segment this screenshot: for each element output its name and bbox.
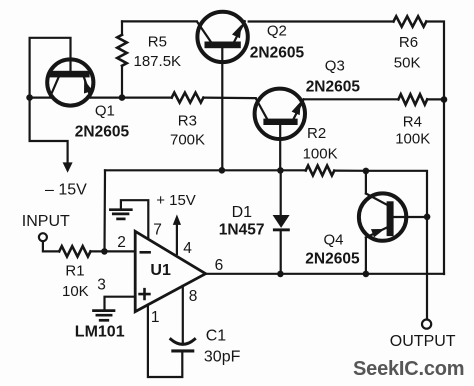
svg-text:Q3: Q3: [325, 58, 345, 75]
wire feedback rail to Q4 base and OUTPUT: [366, 171, 427, 319]
svg-text:R5: R5: [148, 33, 167, 50]
svg-text:D1: D1: [232, 204, 253, 221]
svg-text:1N457: 1N457: [219, 222, 265, 239]
ground at pin 7: [110, 210, 131, 219]
wire pin 8 to C1: [182, 286, 184, 344]
wire pin 1 to C1 bottom: [148, 305, 182, 377]
svg-text:1: 1: [151, 309, 160, 326]
wire left column pin2: [103, 170, 106, 251]
node junction dot right rail: [441, 96, 448, 103]
svg-text:+ 15V: + 15V: [156, 192, 196, 209]
node junction dot Q4 emitter tap: [363, 271, 370, 278]
node junction dot Q4 base: [424, 214, 431, 221]
resistor R2: [306, 166, 335, 176]
wire Q4 collector segment: [365, 171, 367, 194]
wire output rail from pin 6: [206, 273, 444, 275]
svg-text:2: 2: [117, 234, 126, 251]
svg-text:– 15V: – 15V: [45, 182, 87, 199]
capacitor C1: [171, 339, 195, 352]
terminal OUTPUT: [422, 320, 431, 329]
diode D1: [273, 170, 290, 274]
transistor Q1: [47, 59, 93, 105]
svg-text:700K: 700K: [170, 131, 205, 148]
svg-text:Q2: Q2: [267, 23, 287, 40]
svg-text:6: 6: [215, 257, 224, 274]
wire R1 to op-amp pin 2: [91, 250, 135, 252]
wire Q4 emitter segment: [365, 238, 367, 274]
svg-text:2N2605: 2N2605: [75, 124, 130, 141]
wire pin 4 +15V arrow: [176, 225, 178, 254]
svg-text:100K: 100K: [303, 145, 338, 162]
node junction dot pin2: [101, 248, 108, 255]
wire pin 3 to ground: [105, 297, 135, 310]
resistor R3: [172, 93, 204, 103]
svg-text:LM101: LM101: [75, 323, 125, 340]
svg-text:U1: U1: [150, 262, 171, 279]
svg-text:100K: 100K: [395, 130, 430, 147]
wire Q1 emitter to R3: [91, 96, 172, 98]
wire Q1 left lead to rail: [30, 96, 50, 98]
node junction dot D1 bottom: [277, 271, 284, 278]
wire R6 to right rail: [426, 22, 444, 275]
node junction dot R5 bottom: [119, 94, 126, 101]
svg-text:187.5K: 187.5K: [134, 53, 182, 70]
svg-text:INPUT: INPUT: [22, 213, 70, 230]
svg-text:3: 3: [97, 277, 106, 294]
svg-text:R2: R2: [307, 125, 326, 142]
wire R3 to Q3: [203, 96, 255, 99]
svg-text:2N2605: 2N2605: [250, 45, 305, 62]
wire R4 to right rail: [427, 98, 444, 100]
svg-text:C1: C1: [206, 328, 227, 345]
wire top rail Q2 to R6: [249, 20, 394, 22]
wire -15V arrowhead: [63, 162, 73, 172]
transistor Q4: [359, 193, 427, 240]
wire pin 7 to ground: [121, 200, 148, 239]
resistor R5 vertical: [117, 21, 127, 94]
wire R2 to node: [334, 170, 366, 172]
node junction dot Q2 lead: [219, 167, 226, 174]
ground at pin 3: [94, 311, 115, 321]
resistor R6: [394, 16, 427, 26]
wire Q1 top lead: bar up, left, down left rail: [30, 38, 71, 163]
svg-text:Q4: Q4: [324, 231, 344, 248]
svg-text:SeekIC.com: SeekIC.com: [353, 358, 464, 380]
svg-text:50K: 50K: [394, 54, 421, 71]
wire Q3 to R4: [304, 98, 399, 100]
svg-text:30pF: 30pF: [204, 349, 241, 366]
transistor Q2: [197, 12, 248, 62]
svg-text:Q1: Q1: [95, 103, 115, 120]
wire top rail R5 to Q2: [122, 20, 197, 22]
svg-text:R4: R4: [403, 113, 422, 130]
wire Q3 collector down through D1 node: [279, 125, 281, 170]
terminal INPUT: [39, 233, 47, 241]
svg-text:R3: R3: [178, 112, 197, 129]
resistor R4: [398, 94, 427, 104]
node junction dot Q4 collector tap: [363, 168, 370, 175]
wire feedback rail to R2: [105, 169, 306, 171]
svg-text:7: 7: [153, 222, 162, 239]
svg-text:10K: 10K: [62, 283, 89, 300]
op-amp U1: [135, 231, 205, 311]
svg-text:OUTPUT: OUTPUT: [390, 333, 456, 350]
svg-text:R6: R6: [399, 34, 418, 51]
svg-text:2N2605: 2N2605: [306, 79, 361, 96]
svg-text:8: 8: [189, 288, 198, 305]
node junction dot left rail: [26, 94, 33, 101]
svg-text:R1: R1: [65, 262, 84, 279]
node junction dot D1 top: [277, 167, 284, 174]
transistor Q3: [255, 89, 305, 139]
wire Q2 collector down to feedback rail: [221, 48, 223, 170]
wire input to R1: [43, 241, 59, 251]
svg-text:2N2605: 2N2605: [305, 251, 360, 268]
svg-text:4: 4: [183, 240, 192, 257]
resistor R1: [59, 246, 90, 256]
